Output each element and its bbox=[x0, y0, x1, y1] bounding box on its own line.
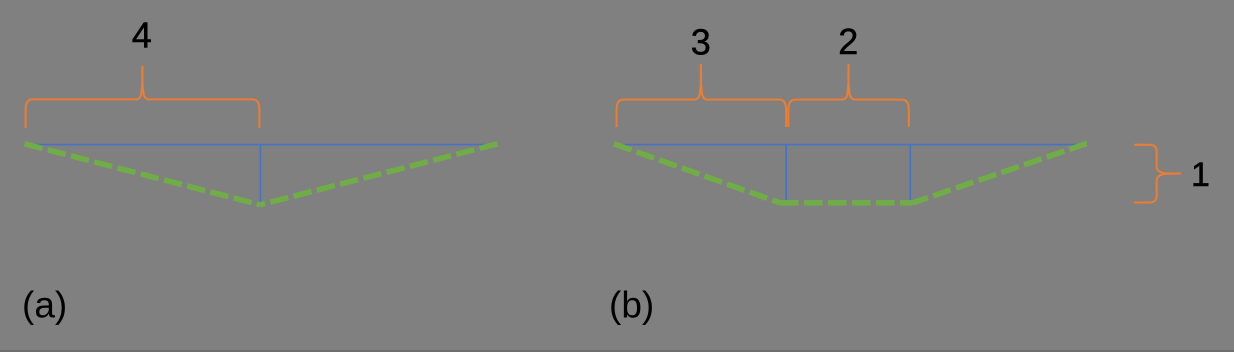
svg-text:(a): (a) bbox=[22, 285, 67, 326]
svg-text:2: 2 bbox=[838, 21, 858, 62]
wire: blue vertical depth line left (b) bbox=[785, 144, 787, 200]
svg-text:(b): (b) bbox=[609, 285, 654, 326]
bottom dark strip bbox=[0, 350, 1234, 352]
green dashed bed profile (b) bbox=[614, 143, 1087, 203]
svg-text:3: 3 bbox=[691, 22, 711, 63]
wire: blue vertical depth line (a) bbox=[259, 144, 261, 202]
wire: blue vertical depth line right (b) bbox=[909, 144, 911, 200]
svg-text:1: 1 bbox=[1191, 156, 1210, 194]
svg-text:4: 4 bbox=[132, 14, 152, 55]
brace B2 (b) bbox=[788, 65, 909, 127]
green dashed bed profile (a) bbox=[25, 144, 498, 205]
wire: blue waterline (b) bbox=[614, 144, 1088, 146]
wire: blue waterline (a) bbox=[25, 144, 499, 146]
brace B1 (right, pointing right) bbox=[1134, 145, 1180, 203]
brace B3 (b) bbox=[617, 65, 787, 127]
brace B4 (a) bbox=[26, 67, 260, 129]
